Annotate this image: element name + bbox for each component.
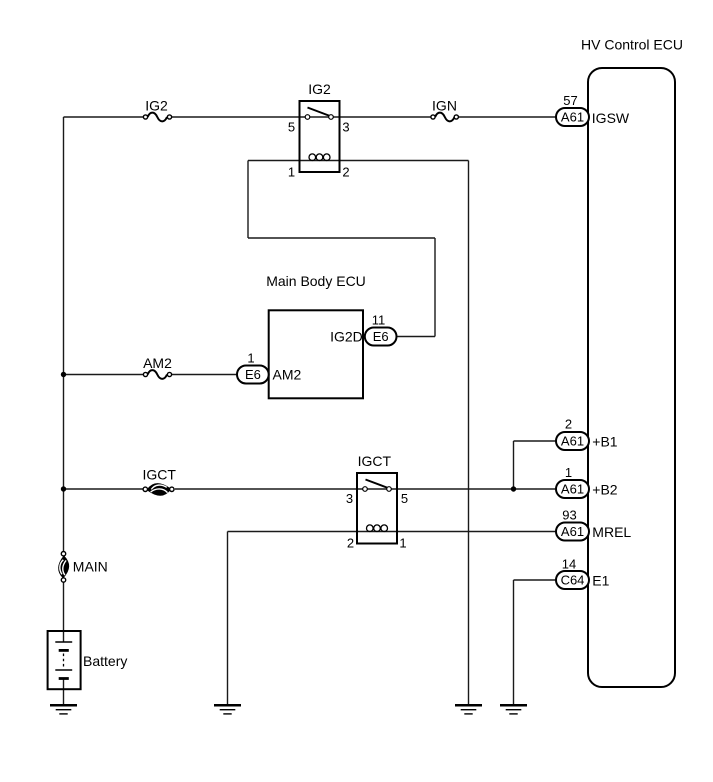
wire IG2D row	[397, 336, 436, 338]
svg-text:A61: A61	[561, 110, 584, 125]
relay IGCT switch contact 5	[387, 487, 392, 492]
wire row1 IG2 fuse to IGN fuse	[171, 116, 431, 118]
relay IGCT switch contact 3	[363, 487, 368, 492]
svg-text:AM2: AM2	[143, 355, 172, 371]
svg-text:2: 2	[342, 165, 349, 180]
wire AM2 row fuse to E6 connector	[171, 374, 237, 376]
wire vertical +B1 to +B2 junction	[513, 441, 515, 489]
wire +B1 row	[514, 440, 557, 442]
svg-text:E6: E6	[373, 329, 389, 344]
wire MREL coil row	[228, 531, 557, 533]
battery box	[48, 631, 81, 689]
wire battery to ground	[63, 679, 65, 705]
connector E6 pin 11 IG2D	[365, 328, 397, 346]
HV Control ECU box	[588, 68, 675, 687]
relay IG2 switch arm	[308, 108, 331, 117]
svg-text:MREL: MREL	[592, 524, 631, 540]
svg-text:IG2: IG2	[308, 81, 331, 97]
fuse IGN	[431, 113, 459, 122]
svg-text:A61: A61	[561, 434, 584, 449]
wire vertical x468.5 to ground	[468, 161, 470, 705]
svg-text:1: 1	[247, 351, 254, 366]
battery plate short 1	[59, 649, 69, 652]
svg-text:1: 1	[565, 465, 572, 480]
svg-text:1: 1	[399, 536, 406, 551]
relay IGCT coil	[367, 525, 388, 532]
relay IGCT box	[357, 473, 397, 544]
connector A61 pin 93 MREL	[556, 523, 589, 541]
svg-text:IG2: IG2	[145, 98, 168, 114]
Main Body ECU box	[269, 310, 363, 398]
fusible link IGCT	[143, 484, 174, 495]
wire AM2 row left of fuse	[64, 374, 145, 376]
svg-text:A61: A61	[561, 482, 584, 497]
battery plate long 2	[55, 669, 72, 671]
svg-text:E1: E1	[592, 573, 609, 589]
svg-text:5: 5	[401, 491, 408, 506]
svg-text:+B2: +B2	[592, 482, 618, 498]
connector A61 pin 57 IGSW	[556, 108, 589, 126]
svg-text:IGSW: IGSW	[592, 110, 630, 126]
svg-text:MAIN: MAIN	[73, 559, 108, 575]
relay IG2 switch contact 5	[305, 115, 310, 120]
wire row1 IGN fuse to IGSW connector	[458, 116, 557, 118]
svg-text:1: 1	[288, 165, 295, 180]
wire IGCT row fuse to +B2 connector	[175, 488, 557, 490]
wire left main vertical	[63, 117, 65, 551]
svg-text:IGCT: IGCT	[358, 453, 392, 469]
wire IG2 relay coil row	[248, 160, 469, 162]
svg-text:Main Body ECU: Main Body ECU	[266, 273, 366, 289]
ground IGCT coil	[214, 705, 241, 714]
junction dot +B1/+B2	[511, 486, 516, 491]
svg-text:IGCT: IGCT	[142, 467, 176, 483]
wire vertical x435	[434, 238, 436, 337]
svg-text:C64: C64	[561, 573, 585, 588]
ground IG2 coil	[455, 705, 482, 714]
connector C64 pin 14 E1	[556, 571, 589, 589]
svg-text:93: 93	[562, 508, 576, 523]
fusible link MAIN	[59, 552, 68, 583]
svg-text:A61: A61	[561, 524, 584, 539]
svg-text:AM2: AM2	[273, 367, 302, 383]
wire IGCT row left of fuse	[64, 488, 144, 490]
svg-text:3: 3	[346, 491, 353, 506]
wire E1 row	[514, 579, 557, 581]
svg-text:E6: E6	[245, 367, 261, 382]
svg-text:IG2D: IG2D	[330, 329, 363, 345]
relay IG2 box	[300, 101, 340, 172]
battery plate short 2	[59, 677, 69, 680]
svg-text:3: 3	[342, 120, 349, 135]
svg-text:+B1: +B1	[592, 434, 618, 450]
wire vertical x227.5 to ground	[227, 532, 229, 705]
wire MAIN link to battery	[63, 582, 65, 642]
svg-text:Battery: Battery	[83, 653, 127, 669]
junction dot AM2 tap	[61, 372, 66, 377]
svg-text:5: 5	[288, 120, 295, 135]
wire vertical x248	[247, 161, 249, 239]
svg-text:11: 11	[372, 313, 386, 328]
wire vertical E1 to ground	[513, 580, 515, 705]
svg-text:2: 2	[347, 536, 354, 551]
fuse AM2	[143, 370, 171, 379]
junction dot IGCT tap	[61, 486, 66, 491]
fuse IG2	[143, 113, 171, 122]
battery dashed cell divider	[63, 654, 65, 668]
svg-text:57: 57	[563, 93, 577, 108]
svg-text:HV Control ECU: HV Control ECU	[581, 37, 683, 53]
connector A61 pin 2 +B1	[556, 432, 589, 450]
connector E6 pin 1 AM2	[237, 366, 269, 384]
relay IG2 switch contact 3	[329, 115, 334, 120]
ground battery	[50, 705, 77, 714]
wire row1 left of IG2 fuse	[64, 116, 145, 118]
wire horizontal segment y238	[248, 237, 435, 239]
svg-text:2: 2	[565, 417, 572, 432]
relay IG2 coil	[309, 154, 330, 161]
connector A61 pin 1 +B2	[556, 480, 589, 498]
svg-text:14: 14	[562, 557, 576, 572]
ground E1	[500, 705, 527, 714]
relay IGCT switch arm	[366, 480, 389, 489]
svg-text:IGN: IGN	[432, 98, 457, 114]
battery plate long 1	[55, 641, 72, 643]
